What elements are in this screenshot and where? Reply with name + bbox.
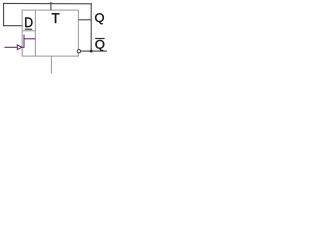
clock wire [4,46,17,48]
clock internal vertical wire [23,35,25,48]
label T [52,13,60,23]
inverter bubble on Qbar output [77,50,80,53]
clock internal horizontal wire [22,46,24,48]
wire bottom stub [50,56,52,73]
background [0,0,115,85]
junction dot [90,50,93,53]
wire feedback left [3,3,5,26]
label Qbar [95,40,104,51]
wire Q output [78,19,91,21]
wire top stub [50,2,52,10]
clock triangle [17,45,21,50]
label D underline [25,28,32,30]
wire feedback top [3,2,92,4]
label D [25,18,32,28]
label Q [95,13,104,24]
D cell bottom line [22,30,35,32]
flip-flop U1 body [22,10,78,56]
wire feedback right vertical [90,3,92,51]
Qbar overline [95,38,104,40]
wire Qbar output [81,50,108,52]
wire D input [3,25,22,27]
internal divider line [34,10,36,56]
